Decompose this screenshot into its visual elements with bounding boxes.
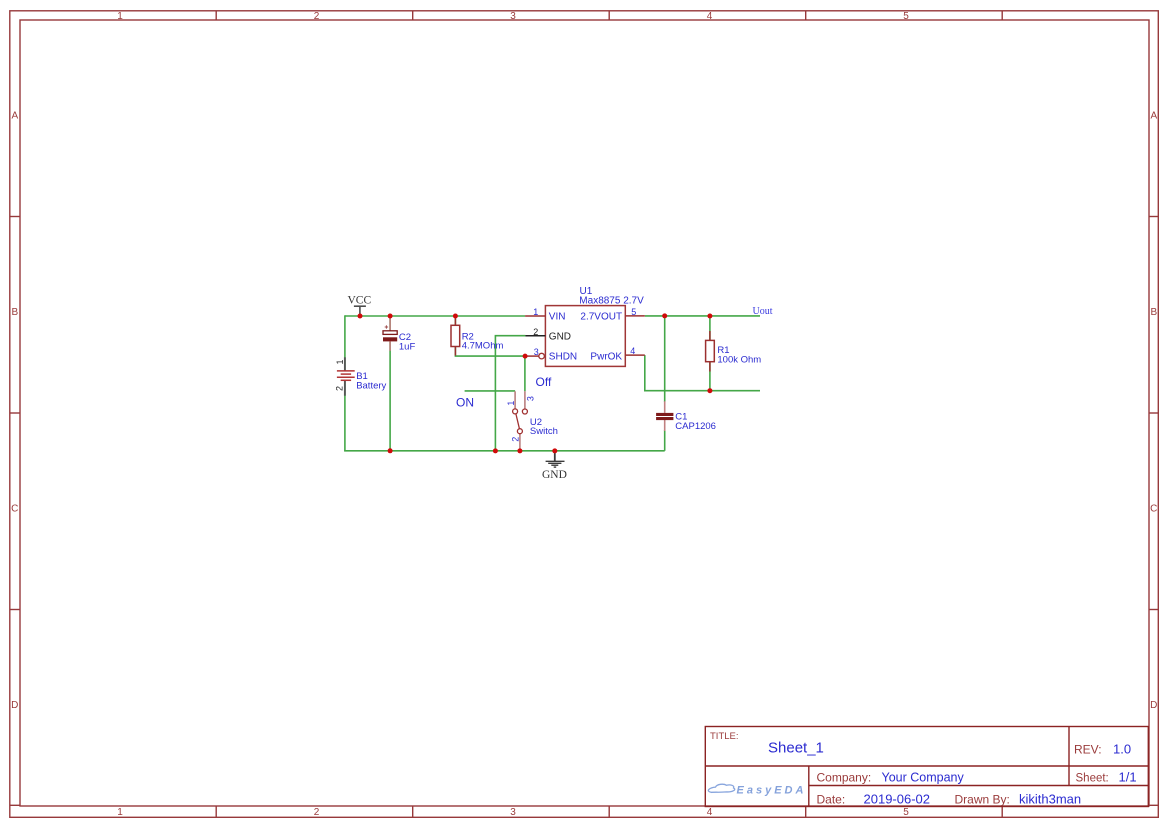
capacitor C1 [656, 401, 673, 431]
svg-text:REV:: REV: [1074, 743, 1102, 757]
net label Uout [753, 306, 773, 317]
pin 3 SHDN [525, 347, 577, 363]
op-amp U1 body [545, 306, 625, 367]
svg-text:Company:: Company: [817, 771, 872, 785]
switch U2 [513, 391, 528, 451]
vcc power symbol [354, 306, 366, 316]
junction C1 top [662, 313, 667, 318]
resistor R2 [451, 317, 460, 356]
svg-text:B: B [11, 307, 18, 318]
svg-text:1: 1 [335, 359, 345, 364]
wire R2 branch [455, 316, 525, 356]
svg-text:1: 1 [117, 807, 123, 818]
svg-text:1.0: 1.0 [1113, 742, 1131, 757]
wire C2 branch [389, 316, 391, 451]
svg-text:ON: ON [456, 396, 474, 410]
svg-text:3: 3 [534, 347, 539, 357]
svg-text:D: D [11, 700, 18, 711]
junction ground symbol at rail [552, 448, 557, 453]
svg-text:PwrOK: PwrOK [590, 352, 622, 363]
junction GND pin branch at rail [493, 448, 498, 453]
svg-text:Date:: Date: [817, 793, 846, 807]
switch pin 3 [526, 396, 536, 401]
svg-text:D: D [1150, 700, 1157, 711]
label B1 Battery [356, 371, 386, 391]
svg-text:2: 2 [511, 437, 521, 442]
svg-text:4: 4 [707, 11, 713, 22]
junction C2 bottom at rail [388, 448, 393, 453]
switch pin 2 [511, 437, 521, 442]
label R1 100k Ohm [717, 345, 761, 365]
svg-text:VIN: VIN [549, 312, 566, 323]
svg-text:kikith3man: kikith3man [1019, 792, 1081, 807]
svg-text:5: 5 [903, 11, 909, 22]
switch pin 1 [506, 401, 516, 406]
svg-text:Battery: Battery [356, 381, 386, 392]
svg-text:Drawn By:: Drawn By: [955, 793, 1010, 807]
svg-text:Sheet_1: Sheet_1 [768, 740, 824, 757]
pin 1 VIN [525, 307, 565, 323]
svg-text:Switch: Switch [530, 426, 558, 437]
junction switch pin2 at rail [517, 448, 522, 453]
svg-text:1: 1 [117, 11, 123, 22]
svg-text:A: A [1150, 110, 1157, 121]
wire IC GND pin to bottom rail [495, 336, 525, 451]
svg-text:3: 3 [510, 11, 516, 22]
svg-text:4.7MOhm: 4.7MOhm [462, 341, 504, 352]
wire C1 branch [664, 316, 666, 451]
svg-text:1uF: 1uF [399, 341, 416, 352]
wire PwrOK branch [645, 355, 760, 391]
wire battery left branch [344, 315, 346, 451]
junction R1 bottom [707, 388, 712, 393]
wire SHDN to switch pin3 [524, 356, 526, 391]
wire ON stub to switch pin1 [465, 390, 515, 392]
junction SHDN node [523, 354, 528, 359]
label Off [536, 375, 552, 389]
junction C2 top [388, 314, 393, 319]
svg-text:EasyEDA: EasyEDA [737, 785, 807, 797]
svg-text:C: C [1150, 503, 1157, 514]
wire R1 branch [709, 316, 711, 391]
wire VCC top rail [345, 315, 525, 317]
svg-text:Uout: Uout [753, 306, 773, 317]
svg-text:1/1: 1/1 [1119, 770, 1137, 785]
svg-text:A: A [11, 110, 18, 121]
svg-text:CAP1206: CAP1206 [675, 421, 716, 432]
svg-text:1: 1 [506, 401, 516, 406]
label ON [456, 396, 474, 410]
ground symbol [546, 451, 565, 467]
svg-text:5: 5 [631, 307, 636, 317]
net label VCC [348, 295, 372, 307]
svg-text:2.7VOUT: 2.7VOUT [580, 312, 622, 323]
svg-text:3: 3 [526, 396, 536, 401]
svg-text:2: 2 [533, 327, 538, 337]
svg-text:TITLE:: TITLE: [710, 731, 739, 742]
pin 4 PwrOK [590, 346, 644, 362]
svg-text:Off: Off [536, 375, 552, 389]
label U2 Switch [530, 417, 558, 437]
wire VOUT to Uout [645, 315, 760, 317]
svg-text:SHDN: SHDN [549, 352, 577, 363]
svg-text:Max8875 2.7V: Max8875 2.7V [579, 295, 644, 306]
svg-text:4: 4 [707, 807, 713, 818]
svg-text:GND: GND [542, 469, 567, 481]
svg-text:GND: GND [549, 331, 571, 342]
junction VCC rail [358, 314, 363, 319]
svg-text:B: B [1150, 307, 1157, 318]
resistor R1 [706, 331, 715, 372]
battery pin 2 [335, 386, 345, 391]
EasyEDA logo [708, 784, 806, 796]
label C1 CAP1206 [675, 411, 716, 431]
svg-text:2: 2 [314, 807, 320, 818]
label R2 4.7MOhm [462, 331, 504, 351]
battery pin 1 [335, 359, 345, 364]
pin 5 2.7VOUT [580, 307, 644, 323]
svg-text:Sheet:: Sheet: [1076, 773, 1109, 785]
junction R2 top [453, 314, 458, 319]
junction R1 top [707, 314, 712, 319]
svg-text:2019-06-02: 2019-06-02 [864, 792, 931, 807]
svg-text:1: 1 [533, 307, 538, 317]
title block texts [710, 731, 1137, 807]
label C2 1uF [399, 332, 416, 352]
label U1 Max8875 2.7V [579, 286, 644, 307]
capacitor C2 [383, 317, 397, 351]
svg-text:Your Company: Your Company [882, 771, 965, 785]
svg-text:5: 5 [903, 807, 909, 818]
wire bottom ground rail [344, 450, 665, 452]
svg-text:2: 2 [314, 11, 320, 22]
svg-text:C: C [11, 503, 18, 514]
net label GND [542, 469, 567, 481]
title block [705, 727, 1148, 807]
svg-text:100k Ohm: 100k Ohm [717, 354, 761, 365]
svg-text:4: 4 [630, 346, 635, 356]
svg-text:2: 2 [335, 386, 345, 391]
svg-text:VCC: VCC [348, 295, 372, 307]
battery B1 [337, 357, 355, 395]
svg-text:3: 3 [510, 807, 516, 818]
pin 2 GND [525, 327, 571, 343]
